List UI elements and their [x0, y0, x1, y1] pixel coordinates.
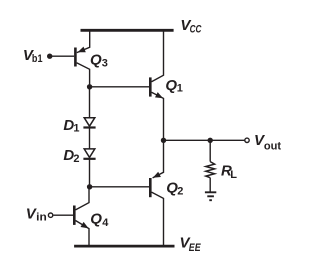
svg-text:Q: Q	[165, 77, 177, 94]
svg-text:4: 4	[102, 217, 109, 229]
svg-text:b1: b1	[32, 53, 43, 65]
svg-text:L: L	[230, 169, 237, 181]
svg-text:3: 3	[102, 58, 108, 70]
svg-text:out: out	[264, 141, 282, 153]
svg-text:1: 1	[177, 83, 183, 95]
svg-text:EE: EE	[189, 242, 201, 254]
svg-text:Q: Q	[90, 51, 102, 68]
svg-text:1: 1	[73, 123, 79, 135]
svg-text:2: 2	[73, 153, 79, 165]
svg-text:CC: CC	[190, 23, 203, 35]
svg-text:in: in	[36, 212, 47, 224]
svg-text:Q: Q	[90, 211, 102, 228]
svg-text:2: 2	[177, 185, 183, 197]
